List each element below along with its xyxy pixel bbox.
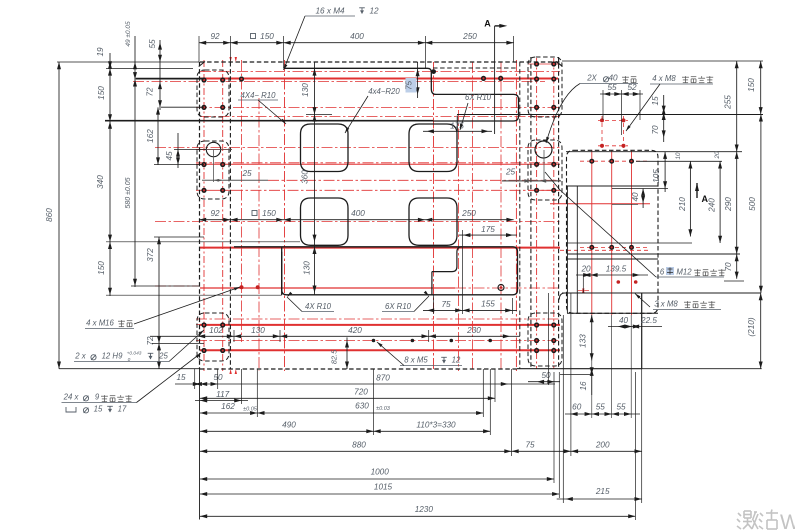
svg-text:130: 130	[303, 261, 312, 275]
svg-text:150: 150	[260, 32, 274, 41]
svg-text:372: 372	[146, 248, 155, 262]
svg-text:500: 500	[748, 197, 757, 211]
svg-text:9: 9	[95, 393, 100, 402]
svg-text:250: 250	[462, 32, 477, 41]
svg-text:720: 720	[354, 388, 368, 397]
svg-text:±0.03: ±0.03	[376, 406, 391, 412]
svg-text:50: 50	[213, 373, 223, 382]
svg-text:15: 15	[651, 96, 660, 106]
svg-text:55: 55	[596, 403, 606, 412]
svg-text:22.5: 22.5	[640, 316, 657, 325]
svg-text:24 x: 24 x	[63, 393, 80, 402]
svg-text:110*3=330: 110*3=330	[416, 421, 456, 430]
svg-text:1230: 1230	[415, 505, 434, 514]
svg-text:2X: 2X	[586, 74, 597, 83]
svg-text:20: 20	[580, 265, 591, 274]
svg-text:12 H9: 12 H9	[102, 352, 123, 361]
svg-text:72: 72	[146, 87, 155, 97]
svg-text:490: 490	[282, 421, 296, 430]
svg-text:75: 75	[525, 441, 535, 450]
svg-text:230: 230	[466, 326, 481, 335]
svg-text:A: A	[701, 194, 708, 204]
svg-text:15: 15	[94, 405, 103, 414]
svg-text:A: A	[484, 19, 491, 29]
svg-text:117: 117	[216, 390, 229, 399]
svg-text:4X4− R10: 4X4− R10	[241, 91, 277, 100]
svg-text:150: 150	[747, 78, 756, 92]
svg-text:870: 870	[376, 374, 390, 383]
svg-text:162: 162	[221, 402, 235, 411]
svg-text:6X R10: 6X R10	[385, 302, 412, 311]
svg-text:92: 92	[210, 32, 220, 41]
svg-text:4 x M8: 4 x M8	[652, 74, 676, 83]
svg-text:±0.05: ±0.05	[243, 407, 258, 413]
svg-text:860: 860	[45, 208, 54, 222]
svg-text:+0.043: +0.043	[127, 351, 142, 357]
svg-text:0: 0	[128, 357, 131, 363]
svg-text:25: 25	[241, 169, 252, 178]
svg-text:880: 880	[352, 441, 366, 450]
svg-text:1015: 1015	[374, 483, 393, 492]
svg-text:420: 420	[348, 326, 362, 335]
svg-text:102: 102	[209, 326, 223, 335]
svg-text:580 ±0.05: 580 ±0.05	[125, 177, 132, 208]
svg-text:45: 45	[165, 151, 174, 161]
svg-text:162: 162	[146, 129, 155, 143]
svg-text:130: 130	[301, 83, 310, 97]
svg-text:12: 12	[452, 356, 461, 365]
svg-text:20: 20	[714, 151, 721, 159]
svg-text:255: 255	[724, 95, 733, 110]
svg-text:6: 6	[660, 268, 665, 277]
svg-text:(210): (210)	[747, 317, 756, 336]
svg-text:250: 250	[461, 209, 476, 218]
svg-text:M12: M12	[676, 268, 692, 277]
svg-text:240: 240	[708, 198, 717, 213]
svg-text:75: 75	[405, 81, 414, 91]
svg-text:55: 55	[607, 83, 617, 92]
svg-text:55: 55	[616, 403, 626, 412]
svg-text:139.5: 139.5	[606, 265, 627, 274]
svg-text:40: 40	[608, 74, 618, 83]
svg-text:92: 92	[210, 209, 220, 218]
svg-text:155: 155	[481, 300, 495, 309]
svg-text:16 x M4: 16 x M4	[315, 7, 345, 16]
svg-text:70: 70	[651, 125, 660, 135]
svg-text:8 x M5: 8 x M5	[404, 356, 428, 365]
svg-text:400: 400	[350, 32, 364, 41]
svg-text:40: 40	[631, 192, 640, 202]
svg-text:105: 105	[652, 169, 661, 183]
svg-text:49 ±0.05: 49 ±0.05	[125, 21, 132, 47]
svg-text:4x4−R20: 4x4−R20	[368, 87, 400, 96]
svg-text:130: 130	[251, 326, 265, 335]
svg-text:25: 25	[158, 352, 168, 361]
svg-text:133: 133	[579, 334, 588, 348]
svg-text:12: 12	[369, 7, 379, 16]
svg-text:6X R10: 6X R10	[465, 93, 492, 102]
svg-text:60: 60	[572, 403, 582, 412]
svg-text:72: 72	[146, 336, 155, 346]
svg-text:17: 17	[118, 405, 127, 414]
svg-text:70: 70	[724, 262, 733, 272]
svg-text:16: 16	[579, 381, 588, 391]
svg-text:175: 175	[481, 225, 495, 234]
svg-text:400: 400	[351, 209, 365, 218]
svg-text:10: 10	[675, 152, 682, 159]
svg-text:19: 19	[96, 47, 105, 57]
svg-text:52: 52	[627, 83, 637, 92]
svg-text:4X R10: 4X R10	[305, 302, 332, 311]
svg-text:4 x M16: 4 x M16	[86, 319, 114, 328]
svg-text:215: 215	[595, 487, 610, 496]
svg-text:210: 210	[678, 197, 687, 212]
svg-text:360: 360	[301, 170, 310, 184]
svg-text:50: 50	[541, 371, 551, 380]
svg-text:W: W	[780, 511, 795, 531]
svg-text:40: 40	[619, 316, 629, 325]
svg-text:2 x: 2 x	[74, 352, 87, 361]
svg-text:340: 340	[96, 175, 105, 189]
svg-text:290: 290	[724, 197, 733, 212]
svg-text:200: 200	[595, 441, 610, 450]
svg-text:82.5: 82.5	[330, 349, 339, 364]
svg-text:150: 150	[97, 261, 106, 275]
svg-text:3 x M8: 3 x M8	[654, 300, 678, 309]
svg-text:75: 75	[441, 300, 451, 309]
svg-text:15: 15	[176, 373, 186, 382]
svg-text:150: 150	[97, 86, 106, 100]
svg-text:55: 55	[148, 39, 157, 49]
svg-text:1000: 1000	[371, 468, 390, 477]
svg-text:25: 25	[505, 168, 516, 177]
svg-text:150: 150	[262, 209, 276, 218]
svg-text:630: 630	[355, 402, 369, 411]
